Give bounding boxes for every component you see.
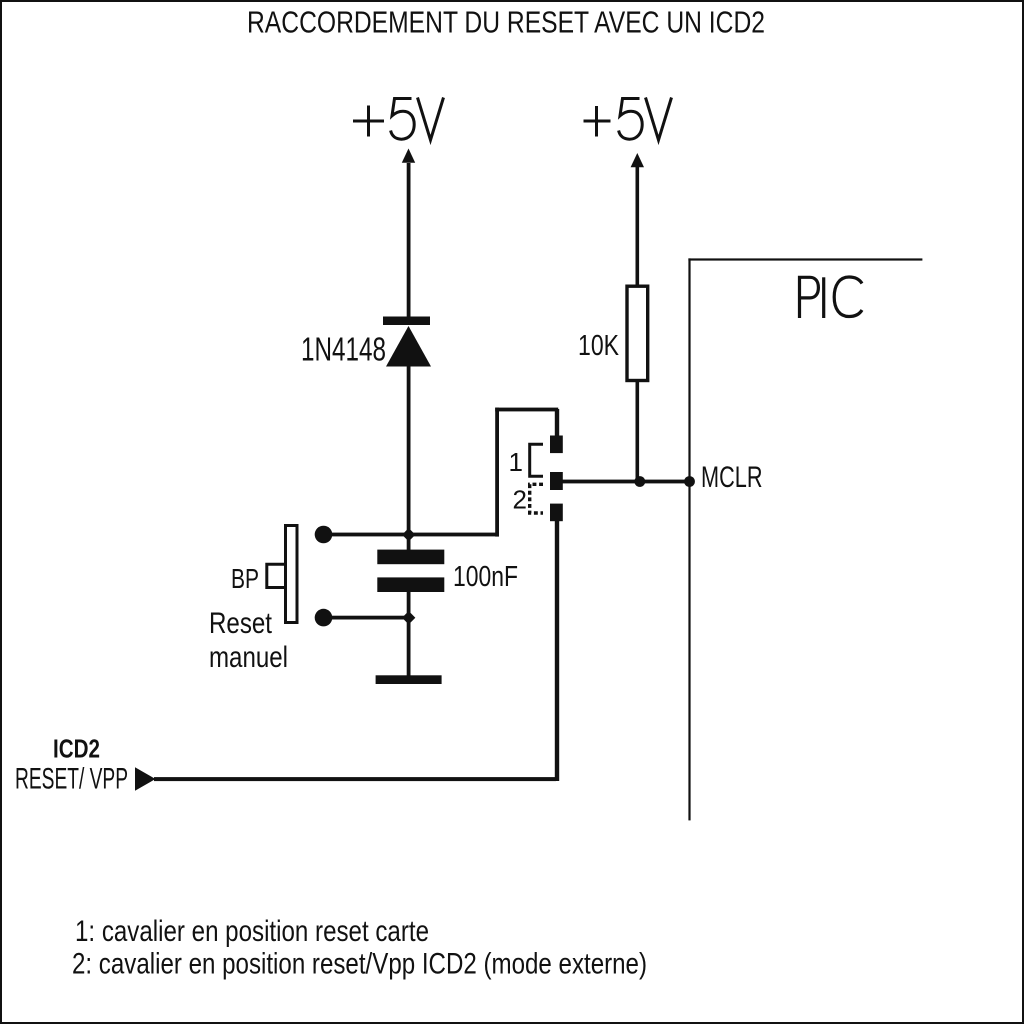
svg-text:ICD2: ICD2 xyxy=(53,733,100,763)
svg-text:RESET/ VPP: RESET/ VPP xyxy=(15,763,128,796)
svg-text:RACCORDEMENT DU RESET AVEC UN: RACCORDEMENT DU RESET AVEC UN ICD2 xyxy=(247,5,765,39)
svg-text:2: 2 xyxy=(513,485,527,515)
svg-text:2: cavalier en position reset/: 2: cavalier en position reset/Vpp ICD2 (… xyxy=(72,947,647,980)
svg-text:BP: BP xyxy=(231,563,259,594)
svg-text:1: cavalier en position reset: 1: cavalier en position reset carte xyxy=(75,915,429,948)
svg-text:Reset: Reset xyxy=(209,607,273,640)
svg-text:MCLR: MCLR xyxy=(701,461,763,494)
svg-text:10K: 10K xyxy=(578,330,620,362)
svg-text:manuel: manuel xyxy=(209,641,288,674)
svg-text:100nF: 100nF xyxy=(453,561,518,593)
svg-text:1: 1 xyxy=(509,447,523,477)
svg-text:1N4148: 1N4148 xyxy=(301,332,386,369)
